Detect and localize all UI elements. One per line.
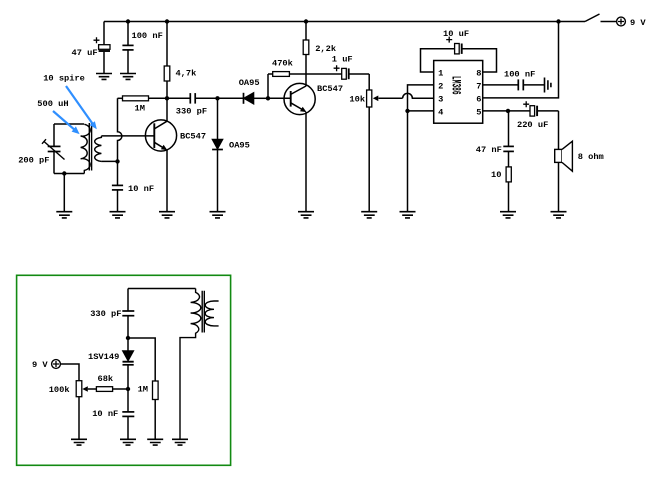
ground under tank	[56, 212, 72, 218]
svg-text:330 pF: 330 pF	[176, 107, 207, 117]
resistor 470k	[268, 72, 342, 99]
inductor transformer T2 secondary	[205, 301, 218, 326]
speaker 8 ohm	[555, 111, 573, 212]
diode OA95 horizontal	[218, 93, 269, 105]
svg-text:47 uF: 47 uF	[72, 48, 98, 58]
svg-text:68k: 68k	[98, 374, 114, 384]
transistor Q2 BC547	[284, 83, 315, 211]
capacitor 330 pF	[167, 93, 218, 104]
ground under pin 4	[400, 212, 416, 218]
resistor 1M vfo	[153, 381, 159, 439]
node dot pin4 ground	[405, 109, 409, 113]
resistor 1M	[118, 96, 168, 101]
svg-text:10 nF: 10 nF	[92, 409, 118, 419]
capacitor 10 nF vfo	[122, 389, 134, 439]
node dot 470k junction	[266, 96, 270, 100]
svg-text:BC547: BC547	[180, 131, 206, 141]
ground under 100k	[71, 439, 87, 445]
wire pin 6 to supply	[483, 22, 559, 98]
ground sideways pin7	[545, 78, 551, 93]
inductor transformer T1 secondary 10 spire	[95, 136, 102, 162]
svg-text:2: 2	[438, 82, 443, 92]
svg-text:220 uF: 220 uF	[517, 120, 548, 130]
green frame modulator box	[17, 275, 231, 465]
inductor transformer T2 primary	[180, 289, 201, 440]
ground under Q1 emitter	[159, 212, 175, 218]
ground under speaker	[551, 212, 567, 218]
node dot 1M junction	[165, 96, 169, 100]
capacitor 100nF	[122, 22, 133, 74]
svg-text:100 nF: 100 nF	[132, 31, 163, 41]
wire base Q2	[268, 97, 291, 99]
wire tank bottom	[54, 173, 84, 175]
battery terminal 9V vfo	[52, 360, 61, 369]
svg-text:10 spire: 10 spire	[43, 73, 85, 83]
wire vfo top	[128, 288, 196, 290]
node dot pin6 rail	[556, 19, 560, 23]
wire tank to ground	[63, 174, 65, 212]
svg-text:4,7k: 4,7k	[176, 69, 197, 79]
battery terminal 9V	[617, 17, 626, 26]
node dot detector junction	[215, 96, 219, 100]
svg-text:7: 7	[476, 82, 481, 92]
capacitor 47 nF zobel	[503, 111, 514, 167]
op-amp U1 LM386 box	[434, 61, 483, 124]
svg-text:100 nF: 100 nF	[504, 70, 535, 80]
ground under 10nF vfo	[120, 439, 136, 445]
ground under 47uF	[96, 74, 112, 80]
arrow callout to primary	[53, 111, 80, 134]
ground under 10nF	[110, 212, 126, 218]
wire top power rail	[104, 21, 585, 23]
switch power	[585, 14, 616, 22]
node dot 68k junction	[126, 387, 130, 391]
svg-text:200 pF: 200 pF	[18, 156, 49, 166]
diode OA95 vertical	[212, 98, 223, 211]
ground under Q2 emitter	[298, 212, 314, 218]
node dot tank ground tap	[62, 171, 66, 175]
resistor 10 zobel	[506, 167, 511, 212]
capacitor 10 nF	[112, 161, 123, 211]
inductor transformer T1 primary 500 uH	[81, 124, 91, 173]
ground under T2	[172, 439, 188, 445]
svg-text:2,2k: 2,2k	[315, 44, 336, 54]
diode varactor 1SV149	[123, 338, 134, 389]
wire pin 2 to ground rail	[408, 85, 434, 111]
capacitor 1 uF electrolytic	[334, 65, 370, 79]
svg-text:1M: 1M	[138, 385, 148, 395]
capacitor 47uF electrolytic	[94, 22, 111, 74]
svg-text:8: 8	[476, 69, 481, 79]
svg-text:3: 3	[438, 94, 443, 104]
capacitor 100 nF pin7	[483, 79, 545, 90]
svg-text:10 uF: 10 uF	[443, 29, 469, 39]
transformer T2 core	[202, 291, 204, 333]
resistor 68k	[82, 386, 128, 392]
transformer T1 core	[89, 123, 91, 171]
node dot 2,2k rail	[304, 19, 308, 23]
potentiometer 100k	[60, 364, 81, 439]
svg-text:8 ohm: 8 ohm	[578, 152, 604, 162]
svg-text:470k: 470k	[272, 59, 293, 69]
svg-text:LM386: LM386	[448, 76, 463, 95]
svg-text:10: 10	[491, 170, 501, 180]
svg-text:4: 4	[438, 107, 443, 117]
ground under 10k pot	[361, 212, 377, 218]
svg-text:OA95: OA95	[229, 140, 250, 150]
node dot 4,7k rail	[165, 19, 169, 23]
svg-text:9 V: 9 V	[630, 18, 646, 28]
resistor 4,7k	[164, 22, 170, 99]
ground under 1M vfo	[147, 439, 163, 445]
wire pin 3 to pot wiper with hop	[403, 93, 434, 98]
wire 1M riser with hop over base wire	[118, 98, 122, 161]
wire tank top	[54, 123, 84, 125]
wire Q1 base to transformer secondary	[101, 135, 154, 137]
variable capacitor 200 pF tank	[42, 124, 65, 174]
transistor Q1 BC547	[145, 98, 176, 211]
svg-text:1SV149: 1SV149	[88, 352, 119, 362]
node dot pin5 output	[506, 109, 510, 113]
node dot secondary bottom	[115, 159, 119, 163]
svg-text:500 uH: 500 uH	[37, 99, 68, 109]
potentiometer 10k	[367, 74, 403, 212]
svg-text:1 uF: 1 uF	[332, 54, 353, 64]
wire pin 4 to ground	[408, 111, 434, 212]
node dot varactor top	[126, 336, 130, 340]
svg-text:1: 1	[438, 69, 443, 79]
ground under 100nF	[120, 74, 136, 80]
svg-text:1M: 1M	[135, 103, 145, 113]
svg-text:10k: 10k	[349, 94, 365, 104]
svg-text:OA95: OA95	[239, 78, 260, 88]
svg-text:9 V: 9 V	[32, 360, 48, 370]
svg-text:10 nF: 10 nF	[128, 184, 154, 194]
capacitor 330 pF vfo	[122, 289, 134, 339]
resistor 2,2k	[303, 22, 309, 87]
arrow callout to secondary	[66, 86, 97, 129]
ground under OA95	[210, 212, 226, 218]
node dot 100nF rail	[126, 19, 130, 23]
svg-text:330 pF: 330 pF	[90, 309, 121, 319]
svg-text:47 nF: 47 nF	[476, 145, 502, 155]
capacitor 220 uF electrolytic	[483, 101, 559, 116]
wire to 1M vfo	[128, 338, 155, 381]
wire secondary bottom	[101, 160, 117, 162]
capacitor 10 uF electrolytic gain	[421, 37, 497, 72]
svg-text:5: 5	[476, 107, 481, 117]
svg-text:100k: 100k	[49, 385, 70, 395]
svg-text:6: 6	[476, 94, 481, 104]
svg-text:BC547: BC547	[317, 84, 343, 94]
ground under zobel	[500, 212, 516, 218]
